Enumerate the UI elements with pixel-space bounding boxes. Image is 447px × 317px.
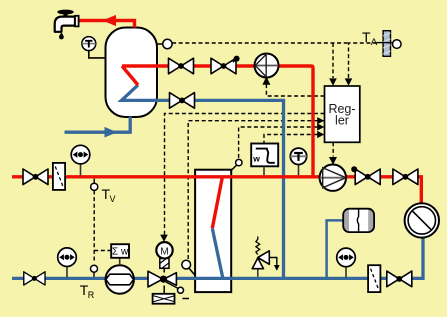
- svg-text:Σ w: Σ w: [112, 247, 129, 258]
- svg-text:ler: ler: [335, 114, 349, 128]
- svg-text:A: A: [371, 37, 378, 48]
- svg-text:M: M: [160, 245, 169, 257]
- svg-text:T: T: [362, 29, 371, 45]
- svg-text:w: w: [252, 154, 260, 164]
- svg-text:R: R: [88, 290, 95, 300]
- svg-text:V: V: [110, 194, 116, 204]
